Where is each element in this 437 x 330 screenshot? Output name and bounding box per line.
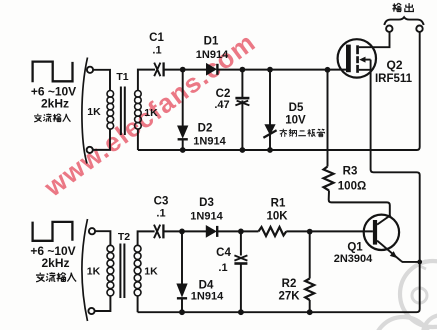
- svg-text:C4: C4: [216, 247, 231, 259]
- svg-text:10V: 10V: [285, 115, 306, 127]
- svg-text:10K: 10K: [266, 211, 288, 223]
- node dot (C4/common): [238, 309, 244, 315]
- node B (D1/C2 junction): [240, 67, 246, 73]
- svg-text:T2: T2: [118, 231, 130, 243]
- svg-text:1K: 1K: [87, 106, 101, 118]
- svg-text:R3: R3: [343, 166, 358, 178]
- common rail (bottom circuit): [138, 308, 420, 312]
- diode D1: [207, 64, 217, 75]
- svg-text:R1: R1: [271, 198, 286, 210]
- wire: bottom input bottom terminal to T2: [95, 296, 111, 311]
- transformer T1 secondary winding: [135, 91, 142, 130]
- gray logo watermark circle B: [374, 317, 432, 330]
- wire: bottom input top terminal to T2: [95, 231, 110, 245]
- square wave source 2 (bottom input): [33, 222, 73, 241]
- label AC input (top) 交流输入: [34, 114, 70, 122]
- wire: C3 to D3: [163, 230, 206, 232]
- MOSFET Q2: [338, 32, 390, 78]
- label AC input (bottom) 交流输入: [36, 272, 76, 281]
- svg-text:27K: 27K: [278, 291, 300, 303]
- capacitor C3: [154, 224, 163, 238]
- zener D5 branch wire: [269, 70, 271, 150]
- capacitor C1: [154, 62, 163, 76]
- diode D2: [178, 126, 188, 138]
- svg-text:C1: C1: [149, 32, 164, 44]
- terminal (top input +): [87, 67, 93, 73]
- svg-text:.1: .1: [156, 208, 165, 220]
- gray logo watermark inner circle: [412, 288, 427, 303]
- node D (R3/gate junction): [325, 67, 331, 73]
- transformer T2 core: [120, 244, 124, 299]
- wire: C1 to D1: [163, 69, 206, 71]
- output horizontal brace: [384, 17, 423, 25]
- diode D4 branch wire: [181, 231, 183, 312]
- diode D2 branch wire: [182, 70, 184, 126]
- gray logo watermark circle C: [423, 315, 437, 330]
- svg-text:100Ω: 100Ω: [338, 180, 366, 192]
- svg-text:.1: .1: [218, 262, 227, 274]
- svg-text:1N914: 1N914: [193, 136, 226, 148]
- transformer T1 core: [121, 87, 125, 136]
- gray logo watermark circle A (bottom right): [400, 261, 437, 327]
- svg-text:IRF511: IRF511: [375, 73, 413, 85]
- wire: T2 secondary top to C3: [138, 231, 155, 245]
- output label 输出: [392, 3, 413, 12]
- svg-text:C3: C3: [154, 196, 169, 208]
- svg-text:D5: D5: [289, 102, 304, 114]
- resistor R2: [305, 279, 314, 301]
- svg-text:Q1: Q1: [347, 242, 363, 254]
- wire: T1 secondary top to C1: [138, 70, 155, 91]
- wire: R1 to Q1 base: [286, 230, 373, 232]
- diode D4: [177, 284, 187, 296]
- resistor R3: [324, 167, 334, 191]
- node E (C3/D3/D4 junction): [179, 229, 185, 235]
- input brace 1: [82, 58, 88, 164]
- wire: top terminal to T1 primary: [93, 70, 110, 91]
- terminal (bottom input +): [89, 228, 95, 234]
- transistor Q1: [364, 215, 401, 261]
- node A (C1/D1/D2 junction): [180, 67, 186, 73]
- gray logo watermark chevron: [418, 261, 427, 270]
- svg-text:D1: D1: [204, 36, 219, 48]
- svg-text:1K: 1K: [144, 107, 158, 119]
- node dot (D2/common): [180, 147, 186, 153]
- zener diode D5: [265, 125, 275, 134]
- R3 lower wire to Q1 collector: [329, 191, 390, 217]
- wire: D1 to gate rail: [217, 69, 346, 71]
- Q1 emitter wire to right rail: [401, 261, 420, 262]
- svg-text:.47: .47: [214, 99, 229, 111]
- svg-text:1K: 1K: [144, 266, 158, 278]
- resistor R2 branch wire: [309, 232, 311, 313]
- Q2 source wire: [371, 60, 420, 308]
- wire: D3 to R1: [217, 230, 258, 232]
- output terminal left: [386, 26, 392, 32]
- wire: T1 secondary bottom to rail: [137, 129, 139, 150]
- resistor R3 wire from gate node: [327, 70, 329, 167]
- resistor R1: [259, 227, 287, 236]
- transformer T2 secondary winding: [134, 245, 141, 296]
- transformer T1 primary winding: [107, 91, 114, 130]
- svg-text:Q2: Q2: [386, 58, 402, 72]
- node F (D3/C4/R1 junction): [238, 229, 244, 235]
- node C (D5 junction): [267, 67, 273, 73]
- square wave source 1 (top input): [33, 62, 73, 83]
- svg-text:2kHz: 2kHz: [41, 96, 69, 110]
- svg-text:2N3904: 2N3904: [334, 253, 373, 265]
- svg-text:D3: D3: [199, 197, 214, 209]
- svg-text:1N914: 1N914: [190, 211, 223, 223]
- svg-text:1N914: 1N914: [191, 291, 224, 303]
- output terminal right: [416, 26, 422, 32]
- wire: T2 secondary bottom to rail: [137, 296, 139, 312]
- node dot (R2/common): [307, 309, 313, 315]
- transformer T2 primary winding: [107, 245, 114, 296]
- svg-text:.1: .1: [152, 45, 161, 57]
- node dot (D4/common): [179, 309, 185, 315]
- capacitor C2: [235, 98, 249, 105]
- node dot (C2/common): [240, 147, 246, 153]
- node G (R1/R2/base junction): [307, 229, 313, 235]
- svg-text:D2: D2: [198, 123, 213, 135]
- common rail (top circuit): [138, 32, 420, 150]
- wire: bottom terminal to T1 primary: [93, 129, 110, 150]
- svg-text:1N914: 1N914: [196, 49, 229, 61]
- capacitor C2 branch wire: [241, 70, 243, 97]
- capacitor C4 branch wire: [240, 231, 242, 312]
- svg-text:2kHz: 2kHz: [41, 256, 69, 270]
- svg-text:1K: 1K: [87, 266, 101, 278]
- capacitor C4: [234, 255, 247, 263]
- terminal (top input -): [87, 147, 93, 153]
- node dot (D5/common): [267, 147, 273, 153]
- label zener diode 齐纳二极管: [280, 129, 325, 137]
- input brace 2: [82, 219, 88, 321]
- diode D3: [206, 226, 216, 237]
- svg-text:R2: R2: [282, 278, 297, 290]
- terminal (bottom input -): [88, 308, 94, 314]
- svg-text:T1: T1: [116, 71, 128, 83]
